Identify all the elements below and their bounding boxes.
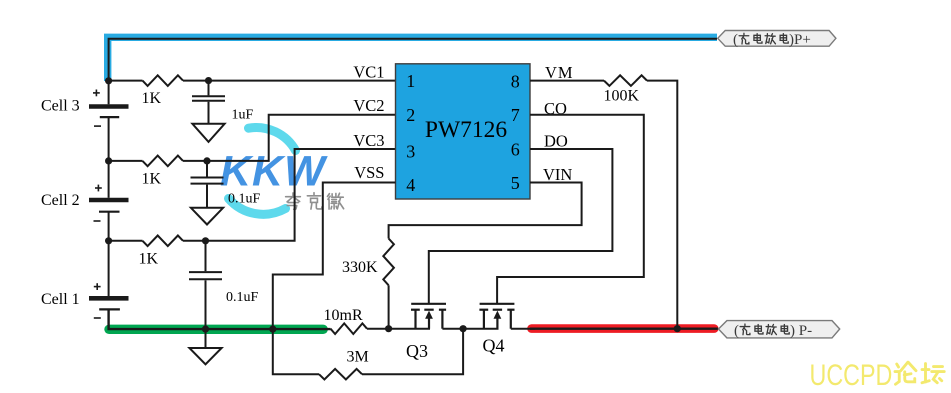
- node Cell2+ junction: [105, 157, 112, 164]
- svg-text:KKW: KKW: [220, 148, 328, 196]
- wire Q4 drain to P- rail: [511, 328, 535, 330]
- wire VIN pin5 to 330K top: [389, 183, 582, 239]
- resistor R 330K: [383, 239, 394, 286]
- node P- rail / VM junction: [674, 325, 681, 332]
- transistor Q4 (NMOS): [479, 304, 514, 329]
- node 10mR/330K junction: [385, 325, 392, 332]
- transistor Q3 (NMOS): [411, 304, 446, 329]
- node row2 cap junction: [203, 157, 210, 164]
- wire VM pin8 to 100K: [530, 80, 604, 82]
- wire P- rail black core: [530, 328, 718, 330]
- svg-text:VC1: VC1: [353, 63, 384, 82]
- wire row1 rail Cell3+ to 1K: [109, 80, 143, 82]
- wire row3 rail Cell1+ to 1K: [109, 240, 143, 242]
- wire P- red band (pack negative): [532, 324, 715, 333]
- svg-text:7: 7: [511, 105, 520, 125]
- svg-text:0.1uF: 0.1uF: [226, 290, 259, 305]
- node Cell3+ junction: [105, 77, 112, 84]
- node row3 cap junction: [202, 237, 209, 244]
- svg-text:1uF: 1uF: [232, 108, 254, 123]
- svg-text:VM: VM: [545, 63, 574, 82]
- wire DO pin6 to Q3 gate: [429, 149, 613, 303]
- svg-text:10mR: 10mR: [324, 307, 363, 324]
- wire Q3 drain to midpoint: [442, 328, 463, 330]
- svg-text:Q3: Q3: [406, 341, 428, 361]
- svg-text:1: 1: [406, 71, 415, 91]
- ground (row3, below B- rail): [189, 348, 221, 364]
- ground (row2): [191, 208, 223, 225]
- wire row1 rail to IC pin1 VC1: [183, 80, 396, 82]
- capacitor C 0.1uF (bottom): [189, 241, 222, 348]
- battery Cell 3: [89, 81, 129, 161]
- resistor R 1K (top): [143, 75, 184, 86]
- svg-text:Q4: Q4: [483, 335, 505, 355]
- ground (row1): [192, 124, 224, 142]
- svg-text:6: 6: [511, 140, 520, 160]
- wire Cell1- down to B- rail: [109, 309, 331, 329]
- svg-text:8: 8: [511, 72, 520, 92]
- wire 100K down to P- rail: [647, 81, 677, 329]
- node B- rail / VSS / 3M junction: [269, 326, 276, 333]
- svg-text:VC3: VC3: [353, 131, 384, 150]
- flag P- (充电放电) P-: [719, 321, 840, 339]
- wire 3M to Q3/Q4 midpoint: [362, 329, 463, 375]
- svg-text:1K: 1K: [142, 90, 162, 107]
- wire CO pin7 to Q4 gate: [497, 115, 644, 303]
- svg-text:(: (: [733, 32, 738, 48]
- wire B+ black core: [109, 39, 717, 81]
- node Q3/Q4 midpoint junction: [460, 325, 467, 332]
- resistor R 1K (bottom): [143, 236, 184, 247]
- flag P+ (充电放电)P+: [718, 31, 836, 49]
- svg-text:3: 3: [406, 142, 415, 162]
- svg-text:)P+: )P+: [789, 32, 811, 48]
- svg-text:) P-: ) P-: [790, 323, 812, 339]
- resistor R 10mR (current sense): [331, 323, 368, 334]
- svg-text:2: 2: [406, 105, 415, 125]
- battery Cell 2: [89, 161, 129, 241]
- logo KKW watermark swoosh arcs: [229, 128, 296, 215]
- wire 3M loop from B- junction: [273, 329, 319, 374]
- svg-text:DO: DO: [544, 131, 568, 150]
- wire 10mR to Q3 source: [367, 328, 430, 330]
- battery Cell 1: [89, 241, 129, 318]
- resistor R 100K: [604, 75, 647, 86]
- wire B- green band (battery negative rail): [109, 325, 323, 334]
- svg-text:1K: 1K: [142, 170, 162, 187]
- wire 330K bottom to sense junction: [388, 285, 390, 328]
- wire row2 rail Cell2+ to 1K: [109, 160, 143, 162]
- svg-text:5: 5: [511, 173, 520, 193]
- wire B+ blue band from Cell3+ to P+ flag: [108, 37, 717, 81]
- capacitor C 0.1uF (middle): [191, 161, 224, 208]
- node row1 cap junction: [205, 77, 212, 84]
- wire row3 rail to VC3 riser and IC pin3: [183, 149, 396, 241]
- wire VSS pin4 to B- rail: [273, 183, 396, 330]
- svg-text:Cell 2: Cell 2: [41, 192, 80, 209]
- wire midpoint to Q4 source: [463, 328, 498, 330]
- svg-text:330K: 330K: [342, 259, 378, 276]
- svg-text:3M: 3M: [347, 349, 369, 366]
- svg-text:Cell 3: Cell 3: [41, 97, 80, 114]
- watermark UCCPD论坛: [810, 358, 893, 391]
- capacitor C 1uF: [192, 81, 225, 124]
- svg-text:VIN: VIN: [543, 165, 572, 184]
- svg-text:(: (: [734, 323, 739, 339]
- resistor R 3M: [319, 369, 362, 380]
- svg-text:100K: 100K: [604, 88, 640, 105]
- node Cell1+ junction: [105, 237, 112, 244]
- svg-text:4: 4: [406, 175, 415, 195]
- svg-text:0.1uF: 0.1uF: [228, 192, 261, 207]
- svg-text:UCCPD: UCCPD: [810, 358, 893, 388]
- node B- rail / cap-ground junction: [202, 326, 209, 333]
- svg-text:Cell 1: Cell 1: [41, 291, 80, 308]
- svg-text:PW7126: PW7126: [425, 117, 508, 143]
- wire row2 rail to VC2 riser and IC pin2: [183, 115, 396, 161]
- resistor R 1K (middle): [143, 156, 184, 167]
- svg-text:VSS: VSS: [354, 163, 384, 182]
- IC U1 PW7126: [396, 64, 531, 199]
- logo 夸克微 text (drawn strokes): [286, 193, 344, 210]
- svg-text:VC2: VC2: [353, 96, 384, 115]
- svg-text:1K: 1K: [139, 250, 159, 267]
